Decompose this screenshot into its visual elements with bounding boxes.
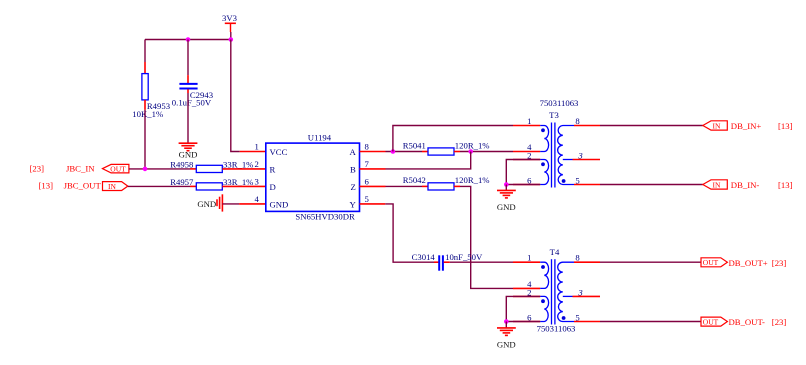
- wire R5041 to T3 pin4: [460, 151, 513, 153]
- wire T4 pin5 to port: [600, 321, 701, 323]
- wire cap to gnd: [187, 93, 189, 143]
- svg-text:7: 7: [365, 159, 370, 169]
- port DB_IN-: [703, 180, 728, 190]
- svg-text:3: 3: [577, 151, 583, 161]
- svg-text:750311063: 750311063: [537, 324, 576, 334]
- ground GND below T4: [497, 322, 516, 350]
- junction A: [391, 149, 396, 154]
- pin 4 stub: [239, 203, 266, 205]
- svg-text:5: 5: [575, 313, 579, 323]
- svg-text:GND: GND: [179, 150, 198, 160]
- junction T3 gnd: [504, 182, 509, 187]
- resistor R5041: [403, 140, 490, 155]
- svg-text:R5042: R5042: [403, 175, 426, 185]
- pin 6 stub: [360, 185, 386, 187]
- junction row2: [143, 167, 148, 172]
- port DB_IN+: [703, 121, 728, 131]
- wire T3 pin5 to port: [600, 184, 703, 186]
- svg-text:OUT: OUT: [703, 258, 719, 267]
- svg-text:0.1uF_50V: 0.1uF_50V: [172, 98, 212, 108]
- wire 3V3 stub: [230, 32, 232, 40]
- wire vcc run: [231, 40, 240, 152]
- svg-text:[13]: [13]: [778, 180, 793, 190]
- resistor R5042: [403, 175, 490, 190]
- svg-text:[13]: [13]: [778, 121, 793, 131]
- wire top rail: [145, 39, 231, 41]
- resistor R4957: [170, 177, 253, 190]
- svg-text:VCC: VCC: [270, 147, 288, 157]
- svg-text:R4957: R4957: [170, 177, 194, 187]
- svg-text:DB_IN-: DB_IN-: [731, 180, 760, 190]
- power 3V3: [222, 13, 237, 32]
- svg-text:IN: IN: [713, 122, 721, 131]
- svg-text:JBC_OUT: JBC_OUT: [64, 181, 102, 191]
- svg-text:3: 3: [254, 177, 258, 187]
- svg-text:U1194: U1194: [308, 133, 332, 143]
- wire Y down: [385, 204, 434, 262]
- wire T4 pin8 to port: [600, 261, 701, 263]
- port DB_OUT+: [701, 258, 727, 267]
- svg-text:1: 1: [527, 116, 531, 126]
- svg-text:10nF_50V: 10nF_50V: [445, 252, 483, 262]
- svg-text:IN: IN: [713, 181, 721, 190]
- wire row2 left: [129, 168, 190, 170]
- wire cap feed: [187, 40, 189, 76]
- svg-text:4: 4: [254, 194, 259, 204]
- svg-text:JBC_IN: JBC_IN: [66, 163, 95, 173]
- pin 1 stub: [240, 151, 266, 153]
- ground GND at pin 4: [197, 194, 222, 211]
- wire T3 pin8 to port: [600, 125, 703, 127]
- wire Z row: [386, 185, 423, 187]
- svg-text:DB_OUT+: DB_OUT+: [729, 258, 768, 268]
- svg-text:R: R: [270, 165, 276, 175]
- svg-text:3V3: 3V3: [222, 13, 237, 23]
- svg-text:1: 1: [527, 253, 531, 263]
- transformer T3: [513, 98, 600, 188]
- svg-text:GND: GND: [197, 199, 216, 209]
- wire Z to T4 pin4: [460, 186, 513, 288]
- svg-text:[23]: [23]: [772, 258, 787, 268]
- pin 8 stub: [360, 151, 386, 153]
- capacitor C3014: [412, 252, 483, 271]
- transformer T4: [513, 247, 600, 334]
- svg-text:A: A: [350, 147, 357, 157]
- svg-text:DB_IN+: DB_IN+: [731, 121, 762, 131]
- junction top-cap: [186, 37, 191, 42]
- resistor R4958: [170, 159, 253, 172]
- wire row3 left: [128, 185, 190, 187]
- svg-text:[23]: [23]: [772, 317, 787, 327]
- port DB_OUT-: [701, 317, 727, 326]
- ground GND below C2943: [179, 143, 198, 159]
- svg-text:120R_1%: 120R_1%: [455, 175, 490, 185]
- svg-text:C3014: C3014: [412, 252, 436, 262]
- port JBC_OUT IN: [103, 182, 128, 191]
- svg-text:3: 3: [577, 288, 583, 298]
- capacitor C2943: [172, 75, 213, 107]
- svg-text:120R_1%: 120R_1%: [455, 140, 490, 150]
- svg-text:[13]: [13]: [39, 181, 54, 191]
- svg-text:DB_OUT-: DB_OUT-: [729, 317, 765, 327]
- svg-text:33R_1%: 33R_1%: [223, 177, 253, 187]
- svg-text:[23]: [23]: [30, 163, 45, 173]
- svg-text:D: D: [270, 182, 276, 192]
- svg-text:5: 5: [575, 176, 579, 186]
- ground GND below T3: [497, 185, 516, 213]
- wire R4953 upper: [144, 40, 146, 63]
- svg-text:B: B: [350, 165, 356, 175]
- svg-text:33R_1%: 33R_1%: [223, 159, 253, 169]
- wire B row: [386, 152, 471, 169]
- pin 3 stub: [222, 185, 265, 187]
- wire A up to T3 pin1: [393, 126, 513, 152]
- pin 2 stub: [222, 168, 265, 170]
- svg-text:OUT: OUT: [703, 318, 719, 327]
- svg-text:1: 1: [254, 142, 258, 152]
- pin 5 stub: [360, 203, 386, 205]
- svg-text:6: 6: [365, 177, 370, 187]
- wire R4953 lower: [144, 110, 146, 169]
- pin 7 stub: [360, 168, 386, 170]
- svg-text:750311063: 750311063: [540, 98, 579, 108]
- wire C3014 to T4 pin1: [450, 261, 513, 263]
- junction B-term: [468, 149, 473, 154]
- wire T4 pin2 to gnd: [506, 296, 540, 321]
- svg-text:GND: GND: [497, 202, 516, 212]
- wire A row: [386, 151, 423, 153]
- svg-text:8: 8: [575, 253, 580, 263]
- port JBC_IN OUT: [103, 164, 129, 173]
- svg-text:IN: IN: [108, 182, 116, 191]
- junction top-vcc: [229, 37, 234, 42]
- op-amp U1194 body: [266, 133, 360, 222]
- svg-text:OUT: OUT: [110, 165, 126, 174]
- svg-text:Y: Y: [350, 199, 357, 209]
- wire T3 pin6: [506, 184, 540, 186]
- svg-text:10K_1%: 10K_1%: [132, 109, 163, 119]
- svg-text:2: 2: [254, 159, 258, 169]
- wire T4 pin6: [506, 321, 540, 323]
- resistor R4953: [132, 62, 170, 119]
- svg-text:Z: Z: [350, 182, 355, 192]
- junction T4 gnd: [504, 319, 509, 324]
- svg-text:5: 5: [365, 194, 369, 204]
- svg-text:SN65HVD30DR: SN65HVD30DR: [295, 212, 355, 222]
- svg-text:GND: GND: [270, 199, 289, 209]
- wire T3 pin2 to gnd: [506, 160, 540, 185]
- svg-text:8: 8: [575, 116, 580, 126]
- svg-text:R5041: R5041: [403, 140, 426, 150]
- svg-text:T3: T3: [549, 110, 559, 120]
- svg-text:T4: T4: [550, 247, 560, 257]
- svg-text:GND: GND: [497, 340, 516, 350]
- svg-text:8: 8: [365, 142, 370, 152]
- wire row4: [222, 203, 239, 205]
- svg-text:R4958: R4958: [170, 159, 194, 169]
